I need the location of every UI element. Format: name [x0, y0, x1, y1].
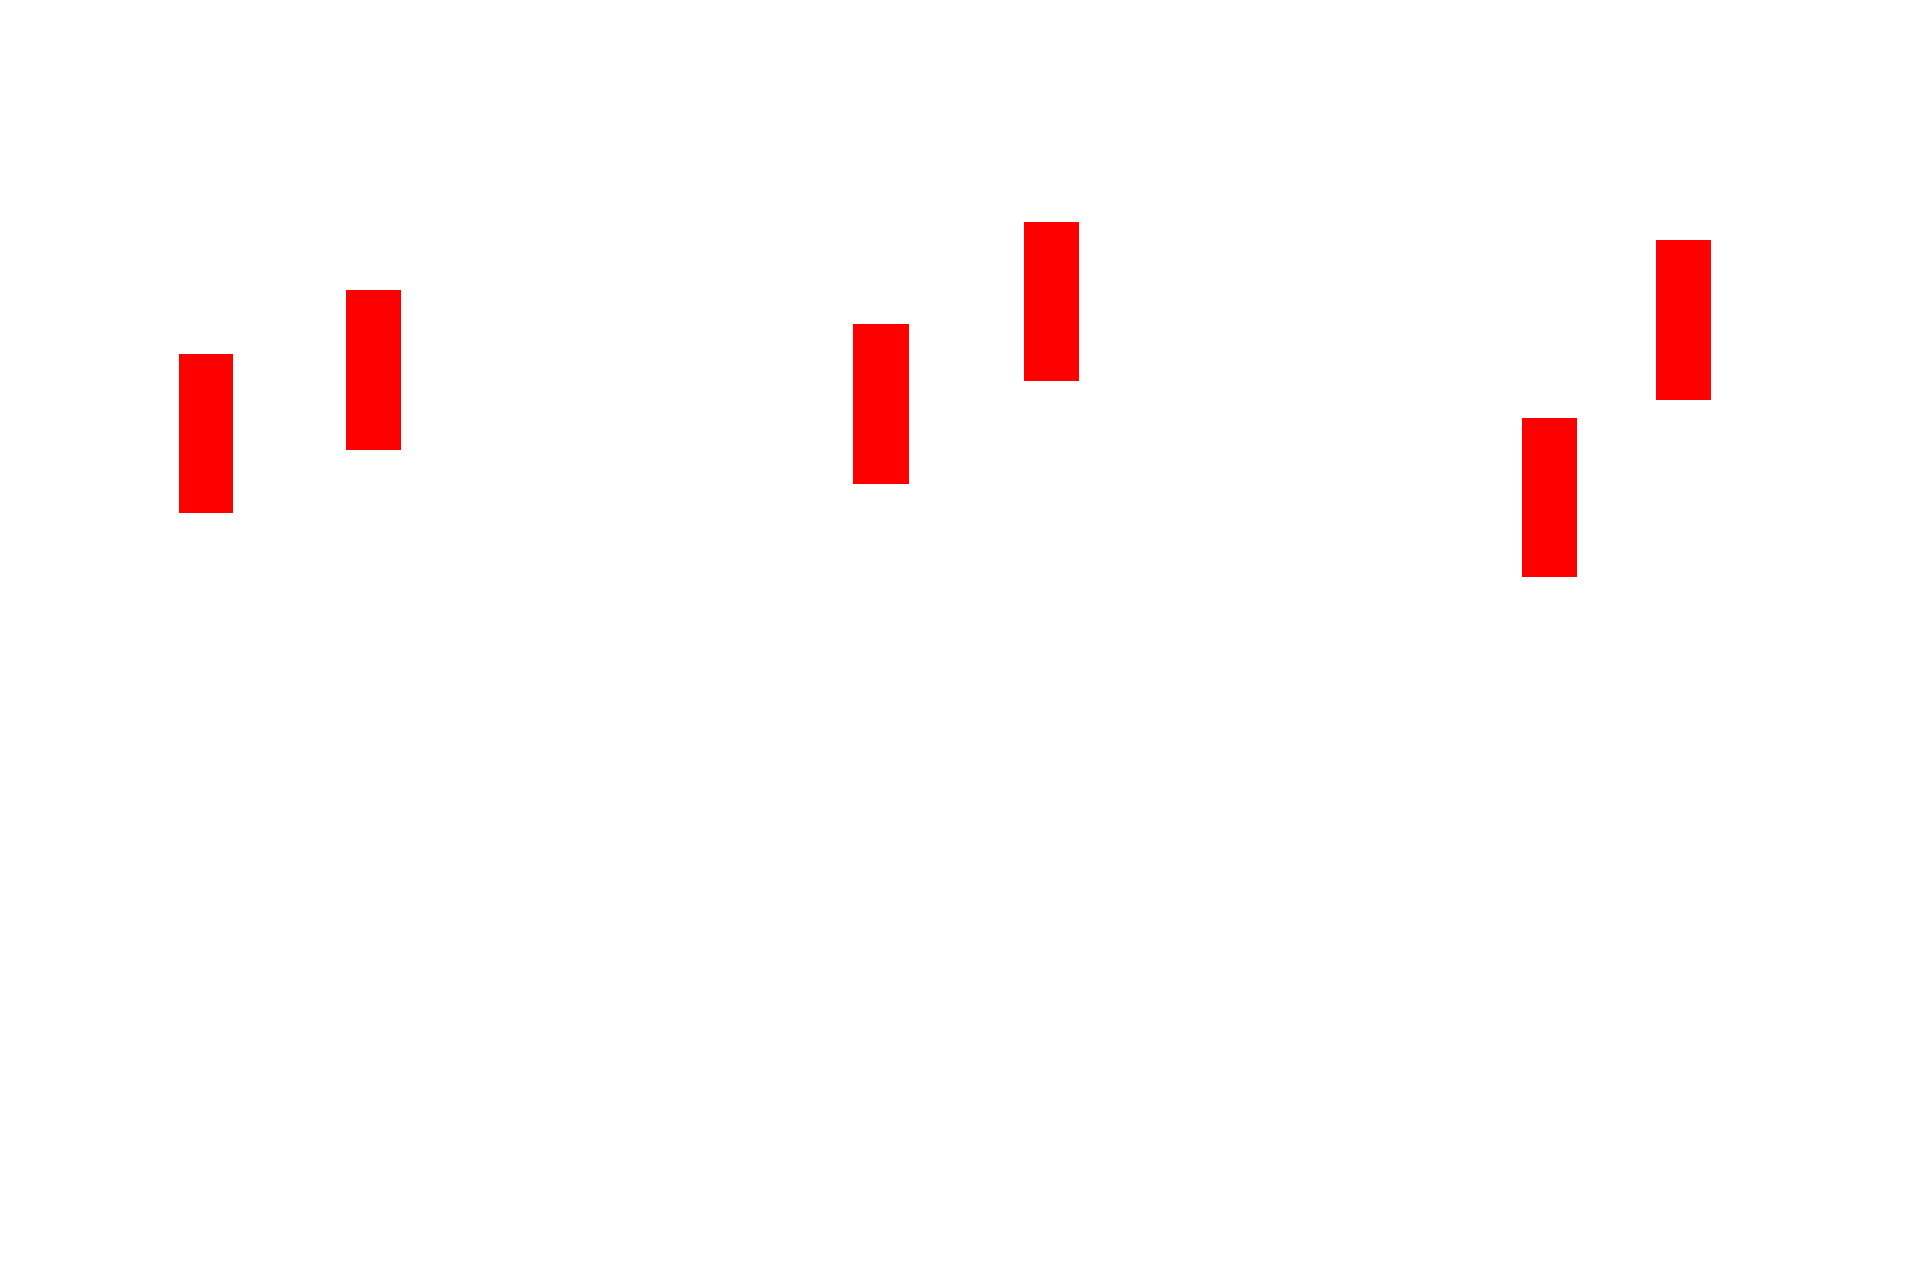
candle 6 (bearish body) — [1656, 240, 1711, 400]
candle 5 (bearish body) — [1522, 418, 1577, 577]
candle 2 (bearish body) — [346, 290, 401, 450]
candle 1 (bearish body) — [179, 354, 233, 513]
candle 4 (bearish body) — [1024, 222, 1079, 381]
candle 3 (bearish body) — [853, 324, 909, 484]
